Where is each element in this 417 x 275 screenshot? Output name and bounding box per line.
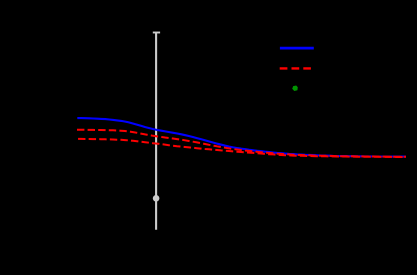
red dashed curve lower [77,139,406,157]
red dashed curve upper [77,130,406,157]
errorbar vertical line [155,33,157,230]
legend green marker [292,86,298,92]
errorbar marker [153,195,160,202]
errorbar top cap [153,32,160,34]
legend red dashed line [280,67,311,69]
legend blue line [280,47,314,50]
blue curve [77,118,406,157]
